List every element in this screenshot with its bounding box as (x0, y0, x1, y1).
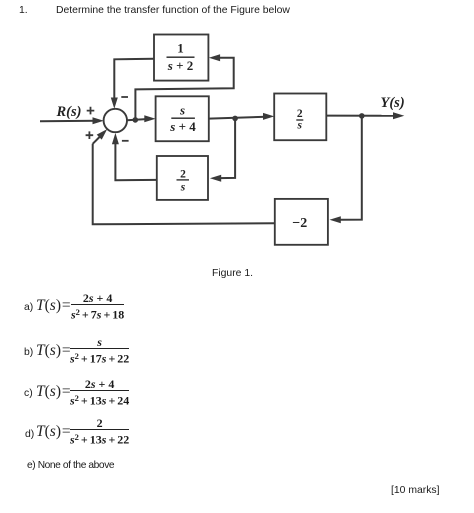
value label 2/s in block G3 (180, 168, 186, 193)
svg-text:−2: −2 (292, 216, 307, 231)
svg-text:1: 1 (177, 41, 184, 56)
equation option d (25, 430, 34, 440)
wire node C riser to block H1 input (340, 116, 362, 220)
sign plus at R input (87, 107, 95, 115)
value label s/(s+4) in block G1 (169, 103, 196, 135)
wire block G4 output to Y(s) (326, 115, 396, 117)
value label 1/(s+2) in block G2 (167, 41, 193, 74)
equation option a (24, 303, 33, 313)
arrowhead into block H1 right edge (330, 216, 341, 223)
block G2 box 1/(s+2) (154, 35, 208, 81)
node B junction dot (232, 116, 238, 122)
arrowhead into summing junction from R(s) (93, 117, 104, 124)
wire block G2 output to summing junction top (114, 59, 154, 101)
title (19, 5, 28, 16)
svg-text:R(s): R(s) (56, 104, 82, 120)
wire R(s) input (40, 120, 97, 122)
svg-text:s: s (180, 181, 186, 193)
block diagram figure (0, 0, 474, 290)
sign minus at top input (121, 96, 128, 98)
sign plus at feedback input (86, 131, 94, 139)
svg-text:2: 2 (297, 108, 303, 120)
equation option c (24, 389, 33, 399)
marks (391, 485, 440, 496)
wire node B riser to block G3 input (220, 118, 235, 178)
caption Figure 1. (212, 268, 253, 279)
node A junction dot (133, 117, 139, 123)
arrowhead diagonal into summing junction lower-left (97, 129, 108, 140)
equation option b (24, 348, 33, 358)
summing junction S1 (104, 109, 127, 132)
svg-text:2: 2 (180, 168, 186, 180)
equation option e (27, 460, 114, 471)
svg-text:s + 4: s + 4 (169, 119, 196, 134)
block G3 box 2/s (157, 156, 208, 200)
arrowhead into block G3 right edge (210, 175, 221, 182)
wire node A riser to block G2 input (135, 58, 233, 120)
svg-text:s + 2: s + 2 (167, 58, 193, 73)
arrowhead into block G4 left edge (263, 113, 274, 120)
arrowhead into summing junction top (111, 98, 118, 109)
block H1 box -2 (275, 199, 328, 245)
arrowhead into summing junction bottom (112, 133, 119, 144)
svg-text:s: s (179, 103, 185, 118)
value label 2/s in block G4 (297, 108, 303, 131)
wire summing junction to block G1 (127, 119, 148, 120)
wire block G1 output to block G4 (209, 117, 266, 119)
block G1 box s/(s+4) (156, 96, 209, 141)
svg-text:Y(s): Y(s) (381, 95, 405, 111)
block G4 box 2/s (274, 94, 326, 141)
svg-text:s: s (297, 119, 303, 131)
node C junction dot (359, 113, 365, 119)
wire block H1 output feedback to summing junction (93, 144, 275, 225)
wire block G3 output to summing junction bottom (115, 141, 156, 180)
wire diagonal into summing junction lower-left (93, 136, 101, 144)
sign minus at bottom input (122, 140, 129, 142)
arrowhead into block G2 right edge (209, 54, 220, 61)
arrowhead output Y(s) (393, 112, 404, 119)
arrowhead into block G1 left edge (144, 115, 155, 122)
